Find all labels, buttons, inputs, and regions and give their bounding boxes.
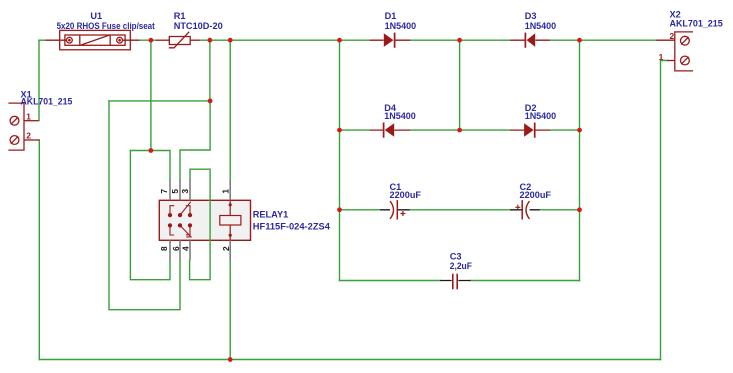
wire relay pin7/8 tie bar <box>130 151 170 180</box>
fuse U1 <box>46 30 140 49</box>
wire left bridge column <box>339 40 341 280</box>
wire horizontal to pin6 column <box>109 100 210 102</box>
svg-text:5: 5 <box>170 189 180 194</box>
wire C2 row right segment <box>540 209 580 211</box>
svg-text:4: 4 <box>181 246 191 251</box>
resistor R1 (NTC) <box>156 32 200 48</box>
wire right bridge column <box>579 40 581 280</box>
wire X1 pin1 riser <box>38 40 40 121</box>
svg-text:1N5400: 1N5400 <box>525 111 557 121</box>
node fuse output junction <box>149 38 154 43</box>
node coil pin1 junction <box>228 38 233 43</box>
node row2 left junction <box>337 128 342 133</box>
wire relay pin6 loop <box>109 101 180 310</box>
node row2 middle junction <box>457 128 462 133</box>
wire middle bridge column <box>459 40 461 130</box>
svg-text:NTC10D-20: NTC10D-20 <box>174 21 223 31</box>
wire C3 row left segment <box>340 280 441 282</box>
relay upper contact <box>168 202 191 217</box>
wire fuse output to R1 <box>139 39 156 41</box>
node pin7/8 branch junction <box>149 148 154 153</box>
node bottom rail coil junction <box>228 357 233 362</box>
svg-text:1N5400: 1N5400 <box>385 21 417 31</box>
connector X2 <box>656 32 693 71</box>
wire C3 row right segment <box>471 280 580 282</box>
relay lower contact <box>168 224 191 237</box>
node C-row right junction <box>577 207 582 212</box>
svg-text:AKL701_215: AKL701_215 <box>670 18 723 28</box>
svg-text:5x20 RHOS Fuse clip/seat: 5x20 RHOS Fuse clip/seat <box>57 21 155 31</box>
capacitor C2 <box>510 200 539 219</box>
svg-text:D1: D1 <box>385 11 397 21</box>
wire row2 left segment <box>340 129 371 131</box>
wire D1 to D3 segment <box>410 39 510 41</box>
svg-text:U1: U1 <box>90 11 102 21</box>
diode D4 <box>370 123 410 138</box>
svg-text:8: 8 <box>159 246 169 251</box>
wire relay coil pin1 to top rail <box>229 40 231 179</box>
svg-text:2: 2 <box>26 131 31 141</box>
capacitor C1 <box>380 200 410 219</box>
relay pin stubs gray <box>170 179 230 260</box>
capacitor C3 <box>440 274 470 289</box>
diode D3 <box>510 33 550 48</box>
svg-text:2,2uF: 2,2uF <box>450 261 472 271</box>
wire X2 pin1 riser <box>661 61 668 360</box>
node top rail right column junction <box>577 38 582 43</box>
svg-text:2200uF: 2200uF <box>520 190 552 200</box>
diode D1 <box>370 33 410 48</box>
diode D2 <box>510 123 550 138</box>
wire R1 output rail to D1 <box>200 39 370 41</box>
svg-text:7: 7 <box>159 189 169 194</box>
relay coil <box>220 200 241 240</box>
node pin5/6 branch junction <box>208 99 213 104</box>
node C-row left junction <box>337 207 342 212</box>
svg-text:1: 1 <box>659 52 664 62</box>
connector X1 <box>8 103 39 150</box>
wire relay coil pin2 to bottom rail <box>229 260 231 359</box>
wire relay pin8 loop <box>130 151 170 280</box>
svg-text:R1: R1 <box>174 11 186 21</box>
svg-text:2: 2 <box>670 31 675 41</box>
svg-text:RELAY1: RELAY1 <box>253 210 288 220</box>
wire R1 output branch down <box>209 40 211 101</box>
wire D3 to X2 pin2 <box>550 39 656 41</box>
svg-text:2200uF: 2200uF <box>390 190 422 200</box>
wire C1 to C2 segment <box>410 209 511 211</box>
svg-text:3: 3 <box>180 189 190 194</box>
wire top rail left segment to fuse <box>39 39 46 41</box>
node R1 output junction <box>208 38 213 43</box>
wire C1 row left segment <box>340 209 381 211</box>
svg-text:2: 2 <box>221 246 231 251</box>
wire row2 D4 to D2 segment <box>410 129 510 131</box>
svg-text:6: 6 <box>171 246 181 251</box>
svg-text:1N5400: 1N5400 <box>384 111 416 121</box>
svg-text:D3: D3 <box>525 11 537 21</box>
wire X1 pin2 drop to bottom rail <box>38 140 40 360</box>
wire node to relay pin5 <box>180 101 210 179</box>
wire bottom rail <box>39 359 660 361</box>
svg-text:1N5400: 1N5400 <box>525 21 557 31</box>
svg-text:1: 1 <box>220 189 230 194</box>
wire row2 right segment <box>550 129 580 131</box>
svg-text:HF115F-024-2ZS4: HF115F-024-2ZS4 <box>253 222 331 232</box>
wire relay pin3-pin4 tie crossing symbol <box>190 169 211 280</box>
svg-text:AKL701_215: AKL701_215 <box>21 97 73 107</box>
node top rail middle column junction <box>457 38 462 43</box>
wire fuse output branch down to contacts 7/8 <box>150 40 152 150</box>
node top rail left column junction <box>337 38 342 43</box>
node row2 right junction <box>577 128 582 133</box>
relay RELAY1 body <box>159 200 250 240</box>
svg-text:1: 1 <box>26 111 31 121</box>
